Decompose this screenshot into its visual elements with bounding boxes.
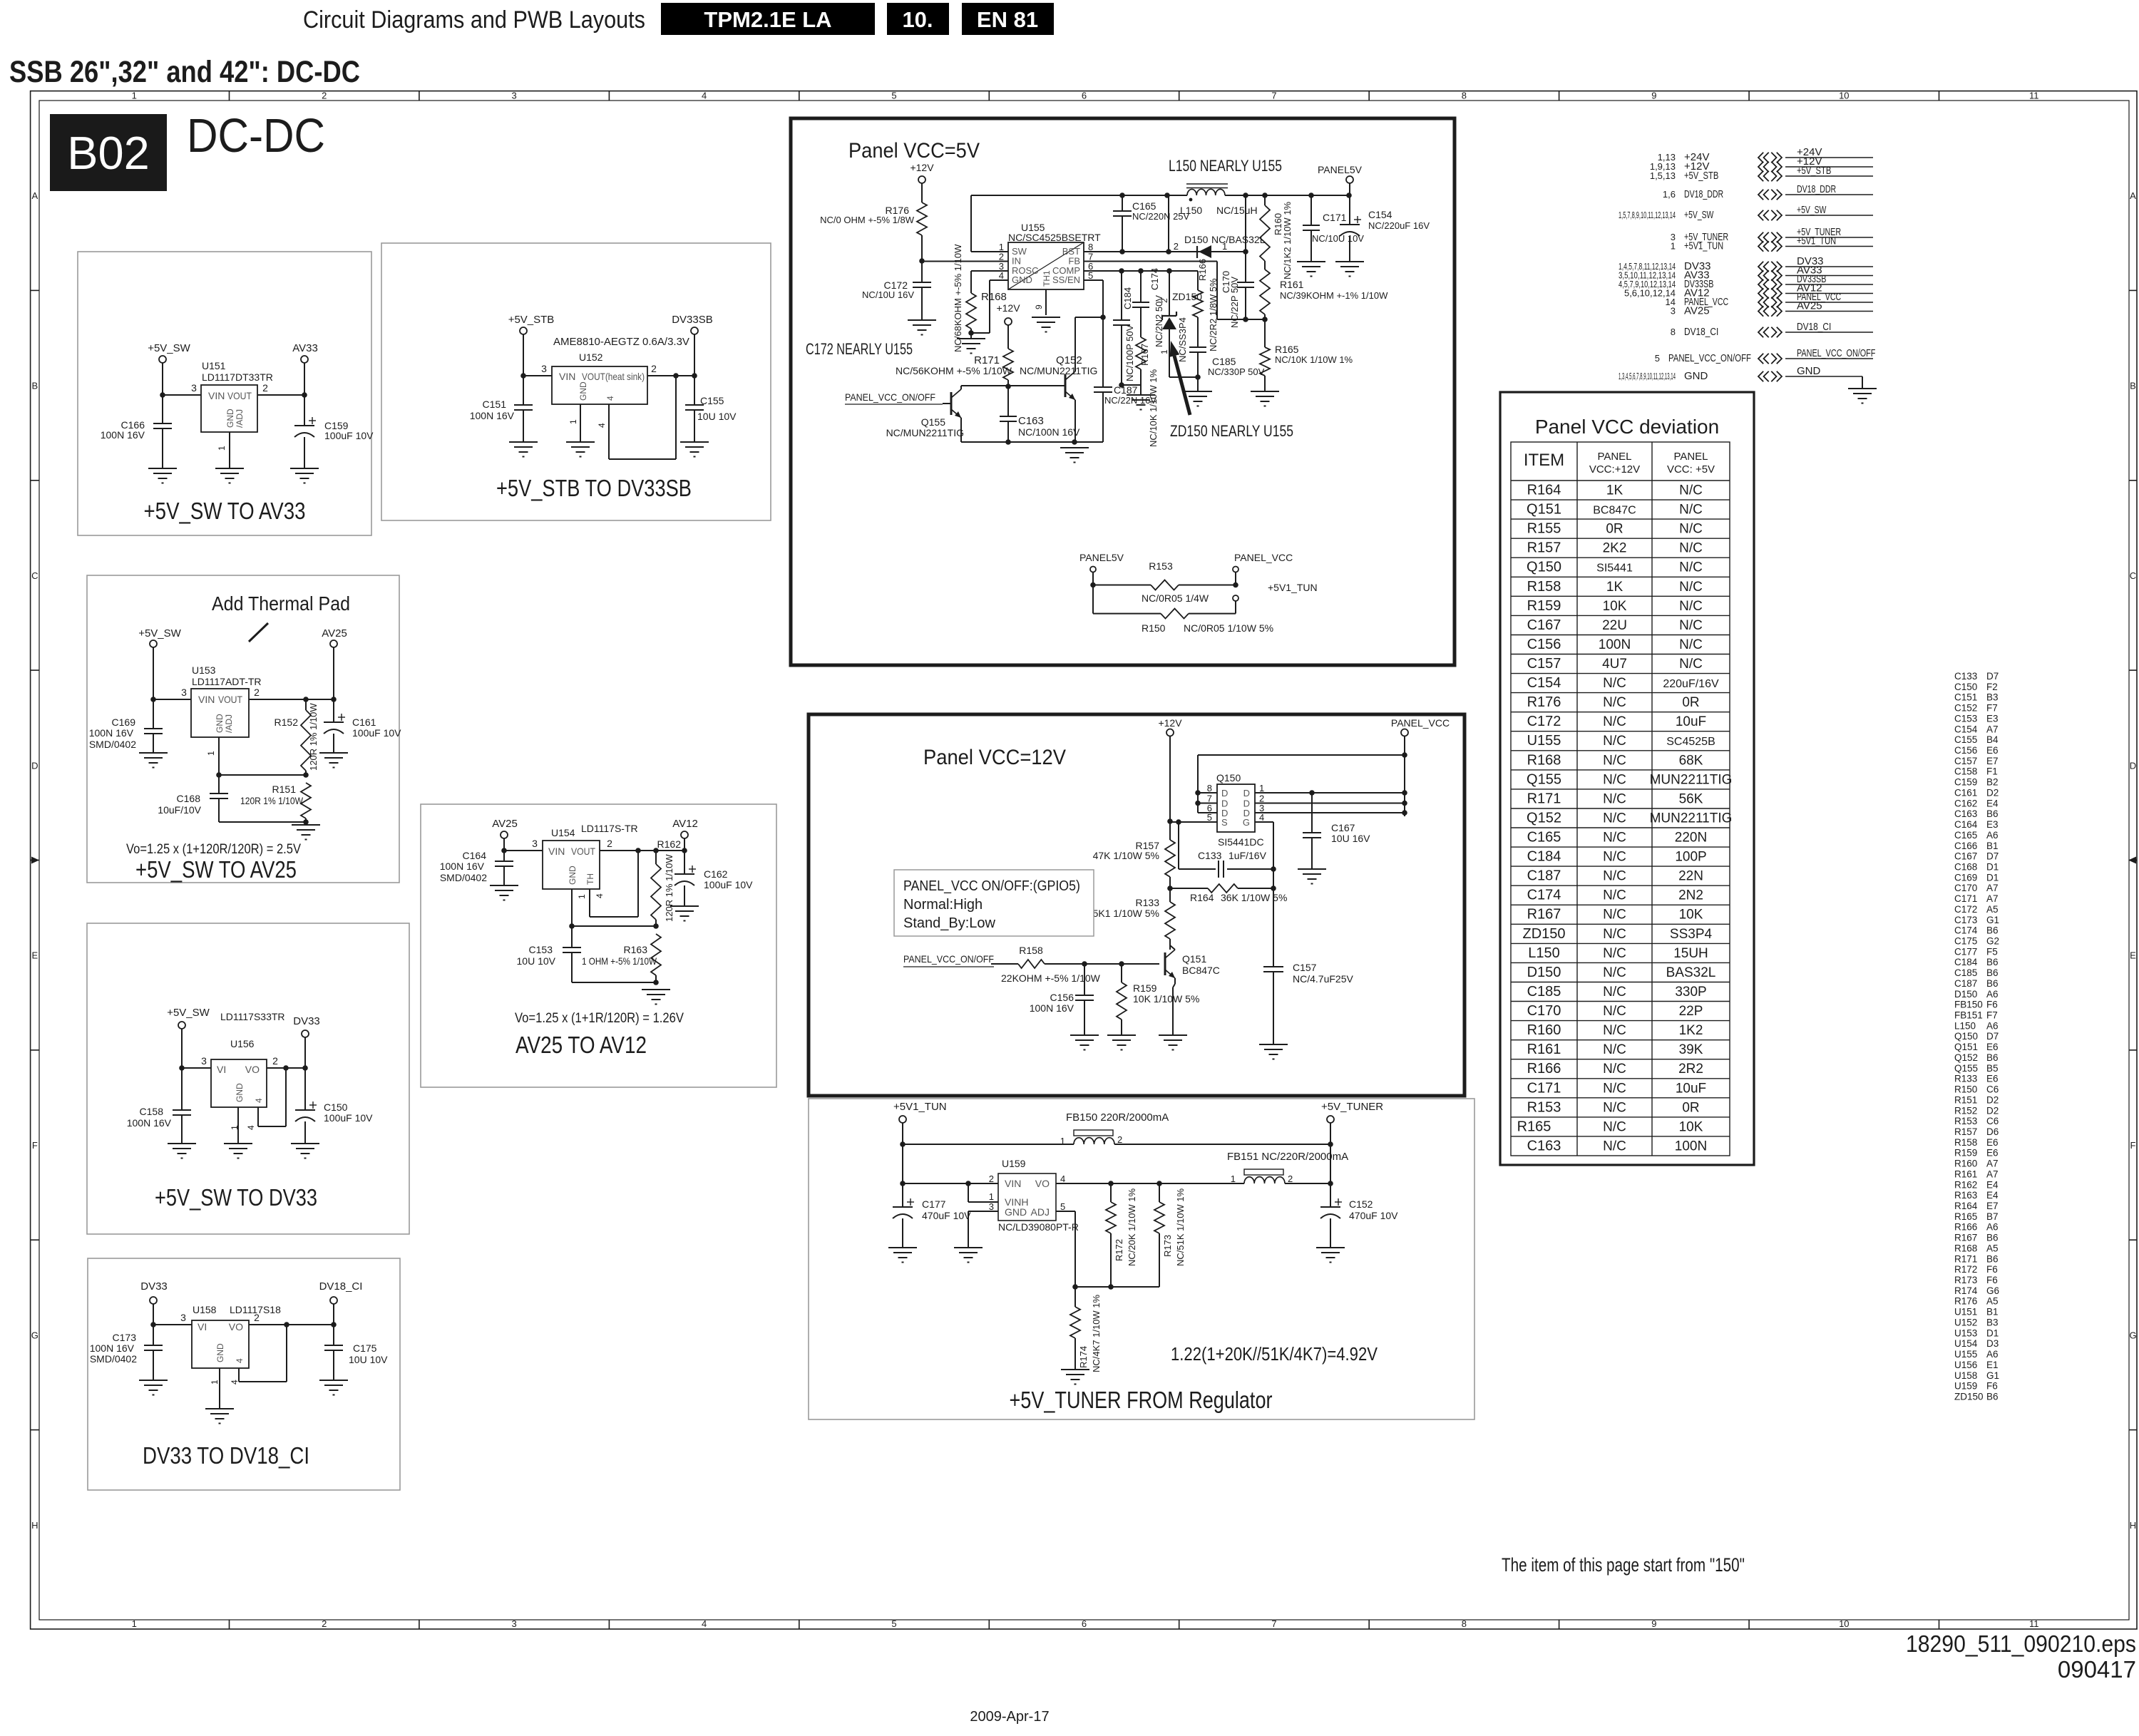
svg-text:C172 NEARLY U155: C172 NEARLY U155 bbox=[806, 340, 913, 358]
svg-text:E6: E6 bbox=[1986, 1137, 1999, 1148]
svg-text:C: C bbox=[31, 570, 38, 581]
svg-text:SC4525B: SC4525B bbox=[1666, 736, 1715, 748]
svg-text:Vo=1.25 x (1+120R/120R) = 2.5V: Vo=1.25 x (1+120R/120R) = 2.5V bbox=[126, 842, 301, 857]
svg-text:C152: C152 bbox=[1349, 1198, 1373, 1210]
svg-text:100N 16V: 100N 16V bbox=[90, 1342, 135, 1354]
svg-text:R133: R133 bbox=[1954, 1074, 1977, 1084]
svg-text:R133: R133 bbox=[1136, 897, 1160, 908]
svg-text:3: 3 bbox=[191, 382, 197, 394]
svg-text:R171: R171 bbox=[1527, 791, 1561, 806]
svg-text:C153: C153 bbox=[1954, 713, 1977, 724]
svg-text:C165: C165 bbox=[1954, 830, 1977, 841]
svg-text:C6: C6 bbox=[1986, 1116, 1999, 1126]
svg-text:C171: C171 bbox=[1323, 212, 1347, 223]
svg-text:N/C: N/C bbox=[1603, 1042, 1626, 1057]
svg-text:PANEL: PANEL bbox=[1597, 451, 1631, 463]
svg-text:U158: U158 bbox=[1954, 1370, 1977, 1381]
svg-text:10uF: 10uF bbox=[1676, 1081, 1706, 1096]
svg-text:R165: R165 bbox=[1954, 1211, 1977, 1222]
svg-text:R164: R164 bbox=[1190, 892, 1214, 903]
svg-text:U154: U154 bbox=[1954, 1338, 1978, 1349]
svg-text:220uF/16V: 220uF/16V bbox=[1663, 678, 1719, 690]
svg-text:NC/10K 1/10W 1%: NC/10K 1/10W 1% bbox=[1275, 354, 1353, 365]
svg-text:D150: D150 bbox=[1527, 965, 1561, 980]
svg-text:R163: R163 bbox=[624, 944, 648, 955]
svg-text:U154: U154 bbox=[551, 827, 575, 838]
svg-text:BC847C: BC847C bbox=[1593, 505, 1636, 517]
svg-text:GND: GND bbox=[225, 409, 235, 428]
svg-text:B1: B1 bbox=[1986, 841, 1999, 851]
svg-text:AV33: AV33 bbox=[292, 342, 318, 354]
svg-text:C184: C184 bbox=[1122, 287, 1133, 309]
svg-text:Q155: Q155 bbox=[1954, 1063, 1978, 1074]
svg-text:A5: A5 bbox=[1986, 1296, 1999, 1307]
svg-text:D1: D1 bbox=[1986, 1327, 1999, 1338]
svg-text:N/C: N/C bbox=[1603, 772, 1626, 787]
svg-text:N/C: N/C bbox=[1603, 965, 1626, 980]
svg-text:N/C: N/C bbox=[1679, 541, 1703, 556]
svg-text:ZD150: ZD150 bbox=[1172, 291, 1202, 302]
svg-text:C175: C175 bbox=[1954, 936, 1977, 947]
svg-text:D2: D2 bbox=[1986, 1094, 1999, 1105]
svg-text:E6: E6 bbox=[1986, 745, 1999, 756]
svg-text:GND: GND bbox=[235, 1083, 245, 1102]
svg-text:A7: A7 bbox=[1986, 724, 1999, 734]
svg-text:1K: 1K bbox=[1606, 580, 1624, 595]
svg-text:10uF/10V: 10uF/10V bbox=[158, 804, 201, 816]
svg-text:VIN: VIN bbox=[198, 694, 215, 705]
svg-text:B7: B7 bbox=[1986, 1211, 1999, 1222]
svg-text:R171: R171 bbox=[1954, 1253, 1977, 1264]
svg-text:1: 1 bbox=[1060, 1136, 1065, 1146]
svg-text:R176: R176 bbox=[1527, 694, 1561, 710]
svg-text:VIN: VIN bbox=[208, 390, 225, 401]
svg-text:C170: C170 bbox=[1527, 1003, 1561, 1019]
svg-text:A7: A7 bbox=[1986, 1159, 1999, 1169]
svg-text:120R 1% 1/10W: 120R 1% 1/10W bbox=[240, 795, 304, 806]
svg-text:Add Thermal Pad: Add Thermal Pad bbox=[212, 592, 350, 615]
svg-text:/ADJ: /ADJ bbox=[224, 714, 234, 733]
svg-text:B6: B6 bbox=[1986, 1052, 1999, 1063]
svg-text:8: 8 bbox=[1462, 91, 1467, 101]
svg-text:11: 11 bbox=[2029, 1618, 2039, 1629]
svg-text:1: 1 bbox=[132, 91, 137, 101]
svg-text:NC/51K 1/10W 1%: NC/51K 1/10W 1% bbox=[1175, 1188, 1186, 1266]
svg-text:C161: C161 bbox=[1954, 788, 1977, 798]
svg-text:DV18_CI: DV18_CI bbox=[319, 1280, 363, 1293]
svg-text:VIN: VIN bbox=[548, 846, 565, 857]
svg-text:A7: A7 bbox=[1986, 1169, 1999, 1179]
svg-text:E4: E4 bbox=[1986, 1190, 1999, 1201]
svg-text:C187: C187 bbox=[1954, 978, 1977, 989]
svg-text:H: H bbox=[31, 1520, 38, 1531]
svg-text:GND: GND bbox=[1684, 370, 1708, 382]
svg-text:1: 1 bbox=[1222, 241, 1227, 252]
svg-text:N/C: N/C bbox=[1603, 695, 1626, 710]
svg-text:R168: R168 bbox=[1954, 1243, 1977, 1253]
svg-text:NC/0R05 1/4W: NC/0R05 1/4W bbox=[1142, 592, 1209, 604]
svg-text:G1: G1 bbox=[1986, 915, 1999, 925]
svg-text:4: 4 bbox=[1060, 1173, 1065, 1184]
svg-text:+5V_TUNER FROM Regulator: +5V_TUNER FROM Regulator bbox=[1010, 1387, 1273, 1413]
svg-text:Panel VCC deviation: Panel VCC deviation bbox=[1535, 416, 1719, 438]
svg-text:2: 2 bbox=[262, 382, 268, 394]
svg-text:FB150: FB150 bbox=[1954, 1000, 1983, 1010]
svg-text:C187: C187 bbox=[1114, 384, 1138, 396]
svg-text:C172: C172 bbox=[1527, 714, 1561, 729]
svg-text:+12V: +12V bbox=[910, 162, 934, 173]
svg-text:5: 5 bbox=[1060, 1201, 1065, 1212]
svg-text:U155: U155 bbox=[1954, 1349, 1977, 1360]
svg-text:C172: C172 bbox=[1954, 904, 1977, 915]
svg-text:2: 2 bbox=[272, 1055, 278, 1067]
svg-text:2: 2 bbox=[1288, 1173, 1293, 1184]
svg-text:C174: C174 bbox=[1527, 888, 1561, 903]
svg-text:N/C: N/C bbox=[1603, 888, 1626, 903]
svg-text:470uF 10V: 470uF 10V bbox=[1349, 1210, 1398, 1221]
svg-text:10K: 10K bbox=[1679, 1119, 1703, 1134]
svg-text:10U 10V: 10U 10V bbox=[349, 1354, 388, 1365]
svg-text:C133: C133 bbox=[1198, 850, 1222, 861]
svg-text:10U 10V: 10U 10V bbox=[517, 955, 556, 967]
svg-text:R160: R160 bbox=[1954, 1159, 1977, 1169]
svg-text:R166: R166 bbox=[1197, 259, 1208, 281]
svg-text:SS3P4: SS3P4 bbox=[1670, 927, 1713, 942]
svg-text:DV33SB: DV33SB bbox=[672, 314, 713, 326]
svg-text:N/C: N/C bbox=[1679, 503, 1703, 518]
svg-text:GND: GND bbox=[215, 1343, 225, 1362]
svg-text:DV33: DV33 bbox=[140, 1280, 168, 1293]
svg-text:D150: D150 bbox=[1184, 234, 1209, 245]
svg-text:1uF/16V: 1uF/16V bbox=[1228, 850, 1267, 861]
svg-text:7: 7 bbox=[1271, 91, 1276, 101]
svg-text:PANEL_VCC: PANEL_VCC bbox=[1391, 717, 1450, 729]
svg-text:Q151: Q151 bbox=[1954, 1042, 1978, 1052]
svg-text:A: A bbox=[2130, 190, 2136, 201]
svg-text:2: 2 bbox=[989, 1173, 994, 1184]
svg-text:B: B bbox=[2130, 381, 2136, 391]
svg-text:C156: C156 bbox=[1050, 992, 1074, 1003]
svg-text:F6: F6 bbox=[1986, 1000, 1998, 1010]
svg-text:11: 11 bbox=[2029, 91, 2039, 101]
svg-text:8: 8 bbox=[1462, 1618, 1467, 1629]
svg-text:C165: C165 bbox=[1132, 200, 1156, 212]
svg-text:ZD150: ZD150 bbox=[1954, 1392, 1984, 1402]
svg-text:B02: B02 bbox=[67, 127, 150, 179]
svg-text:NC/220uF 16V: NC/220uF 16V bbox=[1368, 220, 1430, 231]
svg-text:N/C: N/C bbox=[1603, 1062, 1626, 1077]
svg-text:U151: U151 bbox=[202, 360, 226, 371]
svg-text:A6: A6 bbox=[1986, 1020, 1999, 1031]
svg-text:N/C: N/C bbox=[1603, 811, 1626, 826]
svg-text:0R: 0R bbox=[1606, 522, 1623, 537]
svg-text:VCC: +5V: VCC: +5V bbox=[1667, 463, 1715, 476]
svg-text:L150: L150 bbox=[1528, 945, 1560, 961]
svg-text:3: 3 bbox=[181, 687, 187, 698]
svg-text:B6: B6 bbox=[1986, 808, 1999, 819]
svg-text:15UH: 15UH bbox=[1673, 946, 1708, 961]
svg-text:C166: C166 bbox=[1954, 841, 1977, 851]
svg-text:C163: C163 bbox=[1018, 415, 1044, 427]
svg-text:1: 1 bbox=[1671, 241, 1676, 252]
svg-text:R159: R159 bbox=[1133, 982, 1157, 994]
svg-text:C163: C163 bbox=[1954, 808, 1977, 819]
svg-text:VCC:+12V: VCC:+12V bbox=[1589, 463, 1640, 476]
svg-text:A5: A5 bbox=[1986, 1243, 1999, 1253]
svg-text:R159: R159 bbox=[1954, 1148, 1977, 1159]
svg-text:MUN2211TIG: MUN2211TIG bbox=[1650, 811, 1733, 826]
svg-text:R157: R157 bbox=[1527, 540, 1561, 556]
svg-text:100N 16V: 100N 16V bbox=[127, 1117, 172, 1129]
svg-text:FB150 220R/2000mA: FB150 220R/2000mA bbox=[1066, 1111, 1169, 1124]
svg-text:LD1117S33TR: LD1117S33TR bbox=[220, 1011, 285, 1022]
svg-text:100uF 10V: 100uF 10V bbox=[324, 1112, 373, 1124]
svg-text:R166: R166 bbox=[1527, 1061, 1561, 1077]
svg-text:R152: R152 bbox=[1954, 1105, 1977, 1116]
svg-text:DV18_DDR: DV18_DDR bbox=[1684, 188, 1723, 200]
svg-text:R161: R161 bbox=[1280, 279, 1304, 290]
svg-text:C158: C158 bbox=[140, 1106, 164, 1117]
svg-text:C175: C175 bbox=[353, 1342, 377, 1354]
svg-text:E3: E3 bbox=[1986, 713, 1999, 724]
svg-text:VI: VI bbox=[217, 1064, 226, 1075]
svg-text:090417: 090417 bbox=[2058, 1656, 2136, 1683]
svg-text:C171: C171 bbox=[1954, 893, 1977, 904]
svg-text:5K1 1/10W 5%: 5K1 1/10W 5% bbox=[1093, 908, 1159, 919]
svg-text:C151: C151 bbox=[1954, 692, 1977, 703]
svg-text:1: 1 bbox=[206, 751, 216, 756]
svg-text:R159: R159 bbox=[1527, 598, 1561, 614]
svg-text:C133: C133 bbox=[1954, 671, 1977, 682]
svg-text:R160: R160 bbox=[1527, 1022, 1561, 1038]
svg-text:B5: B5 bbox=[1986, 1063, 1999, 1074]
svg-text:AV25: AV25 bbox=[322, 627, 347, 640]
svg-text:C173: C173 bbox=[1954, 915, 1977, 925]
svg-text:GND: GND bbox=[1012, 274, 1032, 285]
svg-text:Q150: Q150 bbox=[1954, 1031, 1978, 1042]
svg-text:SMD/0402: SMD/0402 bbox=[90, 1353, 137, 1365]
svg-text:EN 81: EN 81 bbox=[977, 7, 1038, 32]
svg-text:TH: TH bbox=[585, 873, 595, 885]
svg-text:A7: A7 bbox=[1986, 893, 1999, 904]
svg-text:4: 4 bbox=[702, 91, 707, 101]
svg-text:F1: F1 bbox=[1986, 766, 1998, 777]
svg-text:N/C: N/C bbox=[1603, 1119, 1626, 1134]
svg-text:10uF: 10uF bbox=[1676, 714, 1706, 729]
svg-text:100N 16V: 100N 16V bbox=[101, 429, 145, 441]
svg-text:E6: E6 bbox=[1986, 1148, 1999, 1159]
svg-text:Q152: Q152 bbox=[1954, 1052, 1978, 1063]
svg-text:C156: C156 bbox=[1954, 745, 1977, 756]
svg-text:5: 5 bbox=[891, 91, 896, 101]
svg-text:5: 5 bbox=[891, 1618, 896, 1629]
svg-text:AME8810-AEGTZ 0.6A/3.3V: AME8810-AEGTZ 0.6A/3.3V bbox=[553, 336, 689, 348]
svg-text:ITEM: ITEM bbox=[1524, 451, 1564, 470]
svg-text:ZD150 NEARLY U155: ZD150 NEARLY U155 bbox=[1170, 422, 1293, 440]
svg-text:1: 1 bbox=[568, 419, 578, 424]
svg-text:NC/1K2 1/10W 1%: NC/1K2 1/10W 1% bbox=[1282, 201, 1293, 279]
svg-text:100N 16V: 100N 16V bbox=[470, 410, 515, 421]
svg-text:2N2: 2N2 bbox=[1678, 888, 1703, 903]
svg-text:1,5,7,8,9,10,11,12,13,14: 1,5,7,8,9,10,11,12,13,14 bbox=[1619, 210, 1676, 220]
svg-text:R167: R167 bbox=[1527, 907, 1561, 923]
svg-text:E4: E4 bbox=[1986, 1179, 1999, 1190]
svg-text:R167: R167 bbox=[1954, 1233, 1977, 1243]
svg-text:C174: C174 bbox=[1149, 268, 1160, 290]
svg-text:C157: C157 bbox=[1293, 962, 1317, 973]
svg-text:Q155: Q155 bbox=[921, 416, 945, 428]
svg-text:U152: U152 bbox=[1954, 1318, 1977, 1328]
svg-text:Panel VCC=12V: Panel VCC=12V bbox=[923, 746, 1066, 769]
svg-text:VOUT: VOUT bbox=[218, 694, 242, 705]
svg-text:N/C: N/C bbox=[1603, 850, 1626, 865]
svg-text:B3: B3 bbox=[1986, 1318, 1999, 1328]
svg-text:VIN: VIN bbox=[1005, 1178, 1021, 1189]
svg-text:B6: B6 bbox=[1986, 978, 1999, 989]
svg-text:2: 2 bbox=[1174, 241, 1179, 252]
svg-text:R172: R172 bbox=[1114, 1239, 1124, 1261]
svg-text:B6: B6 bbox=[1986, 967, 1999, 978]
svg-text:10K: 10K bbox=[1603, 599, 1627, 614]
svg-text:G6: G6 bbox=[1986, 1285, 1999, 1296]
svg-text:+5V_SW: +5V_SW bbox=[138, 627, 181, 640]
svg-text:C173: C173 bbox=[113, 1332, 137, 1343]
svg-text:D6: D6 bbox=[1986, 1126, 1999, 1137]
svg-text:4: 4 bbox=[605, 396, 615, 401]
svg-text:100N 16V: 100N 16V bbox=[89, 727, 134, 739]
svg-text:+5V_STB: +5V_STB bbox=[508, 314, 555, 326]
svg-text:10U 10V: 10U 10V bbox=[697, 411, 737, 422]
svg-text:TH1: TH1 bbox=[1042, 270, 1052, 287]
svg-text:+5V1_TUN: +5V1_TUN bbox=[893, 1101, 947, 1113]
svg-text:B6: B6 bbox=[1986, 925, 1999, 936]
svg-text:4: 4 bbox=[246, 1125, 256, 1130]
svg-text:NC/0 OHM +-5% 1/8W: NC/0 OHM +-5% 1/8W bbox=[820, 215, 915, 225]
svg-text:2: 2 bbox=[1159, 298, 1169, 303]
svg-text:Q151: Q151 bbox=[1527, 502, 1561, 518]
svg-text:C185: C185 bbox=[1527, 984, 1561, 1000]
svg-text:C150: C150 bbox=[324, 1101, 348, 1113]
svg-text:R165: R165 bbox=[1517, 1119, 1551, 1134]
svg-text:E7: E7 bbox=[1986, 1201, 1999, 1211]
svg-text:+5V_SW TO AV33: +5V_SW TO AV33 bbox=[144, 498, 306, 524]
svg-text:+5V1_TUN: +5V1_TUN bbox=[1797, 235, 1836, 247]
svg-text:D7: D7 bbox=[1986, 671, 1999, 682]
svg-text:C152: C152 bbox=[1954, 703, 1977, 714]
svg-text:+5V_SW: +5V_SW bbox=[1684, 209, 1714, 221]
svg-text:+5V_SW: +5V_SW bbox=[167, 1007, 210, 1019]
svg-text:NC/LD39080PT-R: NC/LD39080PT-R bbox=[998, 1221, 1079, 1233]
svg-text:D3: D3 bbox=[1986, 1338, 1999, 1349]
svg-text:1,5,13: 1,5,13 bbox=[1650, 170, 1676, 181]
svg-text:R151: R151 bbox=[1954, 1094, 1977, 1105]
svg-text:1: 1 bbox=[1159, 349, 1169, 354]
svg-text:DV18_CI: DV18_CI bbox=[1797, 321, 1831, 333]
svg-text:N/C: N/C bbox=[1603, 753, 1626, 768]
svg-text:100N 16V: 100N 16V bbox=[440, 861, 485, 872]
svg-text:R174: R174 bbox=[1078, 1346, 1089, 1368]
svg-text:R162: R162 bbox=[657, 838, 682, 850]
svg-text:NC/10U 16V: NC/10U 16V bbox=[862, 289, 914, 300]
svg-text:10: 10 bbox=[1839, 1618, 1849, 1629]
svg-text:NC/56KOHM +-5% 1/10W: NC/56KOHM +-5% 1/10W bbox=[896, 365, 1012, 376]
svg-text:2009-Apr-17: 2009-Apr-17 bbox=[970, 1709, 1049, 1725]
svg-text:C154: C154 bbox=[1368, 209, 1392, 220]
svg-text:G: G bbox=[2129, 1330, 2136, 1340]
svg-text:1: 1 bbox=[1231, 1173, 1236, 1184]
svg-text:NC/100P 50V: NC/100P 50V bbox=[1124, 324, 1135, 381]
svg-text:A5: A5 bbox=[1986, 904, 1999, 915]
svg-text:NC/330P 50V: NC/330P 50V bbox=[1208, 366, 1265, 377]
svg-text:Vo=1.25 x (1+1R/120R) = 1.26V: Vo=1.25 x (1+1R/120R) = 1.26V bbox=[515, 1011, 684, 1026]
svg-text:NC/100N 16V: NC/100N 16V bbox=[1018, 426, 1080, 438]
svg-text:G2: G2 bbox=[1986, 936, 1999, 947]
svg-text:+5V_SW TO AV25: +5V_SW TO AV25 bbox=[135, 856, 297, 883]
svg-text:B1: B1 bbox=[1986, 1307, 1999, 1318]
svg-text:SS/EN: SS/EN bbox=[1052, 274, 1080, 285]
svg-text:Stand_By:Low: Stand_By:Low bbox=[903, 915, 996, 931]
svg-text:R165: R165 bbox=[1275, 344, 1299, 355]
svg-text:U159: U159 bbox=[1002, 1158, 1026, 1169]
svg-text:C165: C165 bbox=[1527, 830, 1561, 846]
svg-text:3: 3 bbox=[532, 838, 538, 849]
svg-text:A6: A6 bbox=[1986, 1349, 1999, 1360]
svg-text:C159: C159 bbox=[1954, 777, 1977, 788]
svg-text:100N 16V: 100N 16V bbox=[1030, 1002, 1074, 1014]
svg-text:U159: U159 bbox=[1954, 1381, 1977, 1392]
svg-text:ADJ: ADJ bbox=[1031, 1206, 1050, 1218]
svg-text:4: 4 bbox=[595, 893, 605, 898]
svg-text:GND: GND bbox=[1005, 1206, 1027, 1218]
svg-text:PANEL_VCC_ON/OFF: PANEL_VCC_ON/OFF bbox=[1797, 347, 1875, 359]
svg-text:C168: C168 bbox=[177, 793, 201, 804]
svg-text:3: 3 bbox=[511, 91, 516, 101]
svg-text:10K 1/10W 5%: 10K 1/10W 5% bbox=[1133, 993, 1199, 1005]
svg-text:F2: F2 bbox=[1986, 682, 1998, 692]
svg-text:39K: 39K bbox=[1679, 1042, 1703, 1057]
svg-text:A7: A7 bbox=[1986, 883, 1999, 893]
svg-text:N/C: N/C bbox=[1679, 618, 1703, 633]
svg-text:NC/10U 10V: NC/10U 10V bbox=[1312, 233, 1364, 244]
svg-text:9: 9 bbox=[1034, 304, 1044, 309]
svg-text:2: 2 bbox=[607, 838, 612, 849]
svg-text:N/C: N/C bbox=[1679, 580, 1703, 595]
svg-text:Q151: Q151 bbox=[1182, 953, 1206, 965]
svg-text:D: D bbox=[2130, 760, 2136, 771]
svg-text:G1: G1 bbox=[1986, 1370, 1999, 1381]
svg-text:2: 2 bbox=[651, 363, 657, 374]
svg-text:E6: E6 bbox=[1986, 1042, 1999, 1052]
svg-text:1: 1 bbox=[210, 1380, 220, 1385]
svg-text:R168: R168 bbox=[1527, 752, 1561, 768]
svg-text:E4: E4 bbox=[1986, 798, 1999, 808]
svg-text:G: G bbox=[1243, 817, 1250, 828]
svg-text:9: 9 bbox=[1651, 1618, 1656, 1629]
svg-text:R173: R173 bbox=[1954, 1275, 1977, 1285]
svg-text:R166: R166 bbox=[1954, 1222, 1977, 1233]
svg-text:2: 2 bbox=[322, 1618, 327, 1629]
svg-text:R174: R174 bbox=[1954, 1285, 1978, 1296]
svg-text:B2: B2 bbox=[1986, 777, 1999, 788]
svg-text:DC-DC: DC-DC bbox=[187, 109, 325, 163]
svg-text:1K2: 1K2 bbox=[1679, 1023, 1703, 1038]
svg-text:C155: C155 bbox=[1954, 734, 1977, 745]
svg-text:N/C: N/C bbox=[1603, 985, 1626, 1000]
svg-text:R167: R167 bbox=[1139, 344, 1150, 366]
svg-text:LD1117S-TR: LD1117S-TR bbox=[581, 823, 638, 834]
svg-text:R176: R176 bbox=[1954, 1296, 1977, 1307]
svg-text:+12V: +12V bbox=[1158, 717, 1182, 729]
